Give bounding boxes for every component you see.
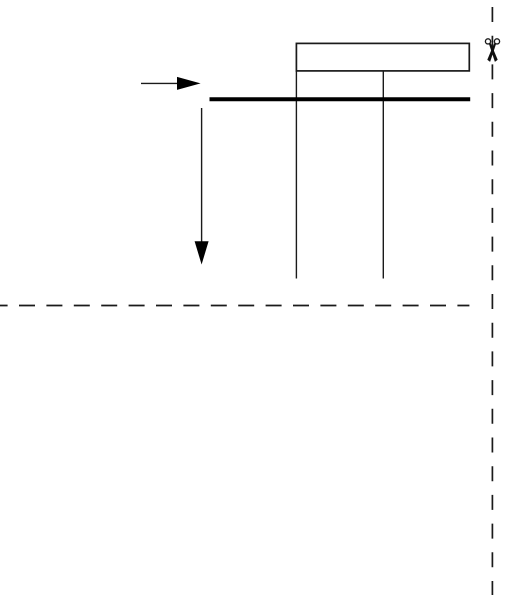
box <box>296 43 469 71</box>
thick bar <box>210 97 471 101</box>
scissors <box>485 39 499 62</box>
wire left vertical <box>295 71 297 279</box>
arrow down <box>195 108 209 265</box>
fold line (horizontal dashed) <box>0 305 469 307</box>
wire middle vertical <box>382 71 384 279</box>
arrow right <box>141 77 201 90</box>
cut line (vertical dashed) <box>491 7 493 595</box>
